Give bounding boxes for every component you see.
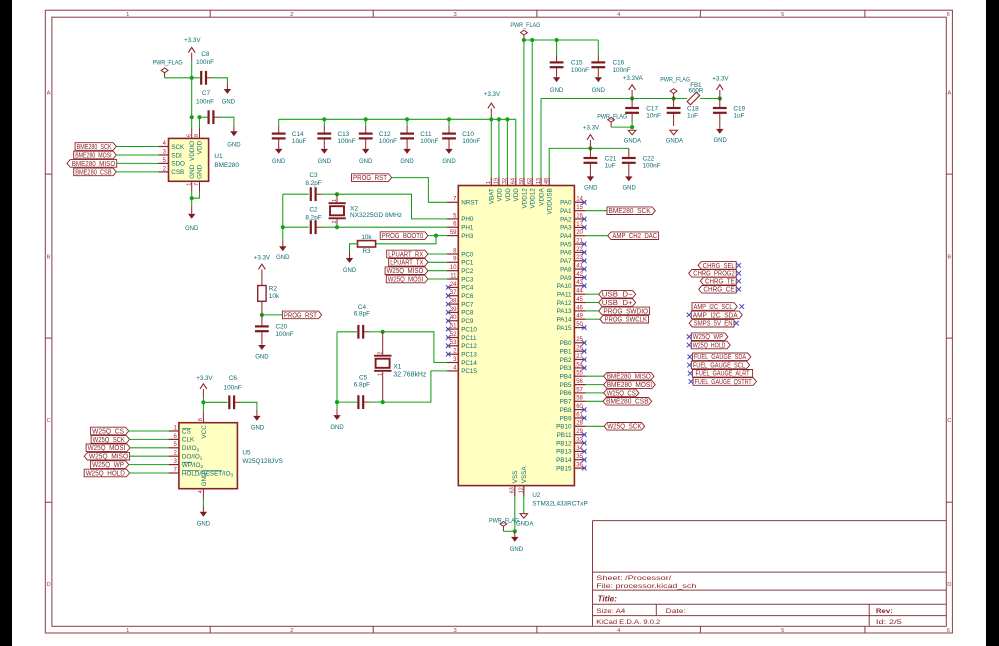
svg-text:53: 53	[450, 340, 457, 346]
svg-text:GND: GND	[197, 522, 211, 528]
svg-text:100nF: 100nF	[276, 331, 294, 338]
svg-text:PB7: PB7	[560, 399, 572, 406]
svg-text:36: 36	[576, 463, 583, 469]
crystal X2	[329, 192, 403, 229]
svg-text:PA12: PA12	[557, 300, 572, 307]
hier label W25Q_WP (nc)	[687, 332, 728, 341]
svg-text:PC1: PC1	[461, 260, 474, 267]
svg-text:1: 1	[126, 12, 129, 18]
svg-text:600R: 600R	[689, 87, 704, 94]
svg-text:3: 3	[453, 12, 456, 18]
svg-text:5: 5	[781, 628, 784, 634]
ground GND (C13)	[318, 149, 332, 165]
hier label FUEL_GAUGE_SDA	[688, 352, 751, 361]
svg-text:SDO: SDO	[171, 161, 185, 168]
svg-text:DO/IO1: DO/IO1	[182, 454, 203, 461]
svg-text:PB11: PB11	[557, 432, 572, 439]
svg-text:17: 17	[576, 222, 583, 228]
hier label W25Q_CS (PB6)	[586, 388, 639, 397]
svg-text:SDI: SDI	[171, 152, 182, 159]
svg-text:C20: C20	[276, 324, 288, 331]
svg-text:Size: A4: Size: A4	[596, 608, 625, 615]
power +3.3V (VDD rail)	[484, 91, 501, 119]
ground GND (C7)	[227, 131, 241, 148]
ground GND (C12)	[359, 149, 373, 165]
capacitor C18	[667, 99, 699, 127]
svg-text:26: 26	[576, 346, 583, 352]
svg-text:C21: C21	[605, 155, 617, 162]
capacitor C14	[272, 119, 307, 149]
svg-text:SMPS_5V_EN: SMPS_5V_EN	[694, 319, 733, 328]
svg-text:1: 1	[378, 373, 384, 376]
svg-text:GND: GND	[222, 99, 236, 105]
svg-text:54: 54	[576, 362, 583, 368]
hier label BME280_MISO (PB4)	[586, 372, 654, 381]
svg-text:SCK: SCK	[171, 144, 185, 151]
svg-text:C17: C17	[646, 105, 658, 112]
svg-text:100nF: 100nF	[338, 138, 356, 145]
svg-text:PA9: PA9	[560, 275, 572, 282]
svg-text:8: 8	[198, 418, 204, 421]
svg-text:PB3: PB3	[560, 365, 572, 372]
svg-text:R3: R3	[362, 248, 371, 255]
hier label CHRG_PROG2	[689, 269, 741, 278]
svg-text:PC4: PC4	[461, 285, 474, 292]
svg-text:C22: C22	[643, 155, 655, 162]
svg-text:W25Q_MOSI: W25Q_MOSI	[388, 274, 424, 283]
svg-text:PA13: PA13	[557, 308, 572, 315]
svg-text:57: 57	[576, 387, 583, 393]
svg-text:100nF: 100nF	[196, 98, 214, 105]
svg-text:A: A	[47, 91, 51, 97]
svg-text:2: 2	[332, 221, 338, 224]
svg-text:61: 61	[576, 412, 583, 418]
svg-text:5: 5	[781, 12, 784, 18]
svg-text:100nF: 100nF	[643, 163, 661, 170]
svg-text:100nF: 100nF	[571, 67, 589, 74]
title block	[593, 521, 947, 627]
U5 pin VCC	[198, 402, 208, 438]
capacitor C19	[713, 99, 746, 129]
ground GND (C16)	[592, 77, 606, 94]
capacitor C12	[359, 119, 397, 149]
svg-text:+3.3V: +3.3V	[484, 91, 501, 98]
svg-text:100nF: 100nF	[420, 138, 438, 145]
svg-text:C2: C2	[309, 206, 318, 213]
svg-text:37: 37	[450, 290, 457, 296]
svg-text:PROG_BOOT0: PROG_BOOT0	[382, 231, 424, 240]
hier label USB_D+ (PA12)	[586, 298, 636, 307]
svg-text:GND: GND	[592, 88, 606, 94]
svg-text:PB5: PB5	[560, 382, 572, 389]
svg-text:KiCad E.D.A. 9.0.2: KiCad E.D.A. 9.0.2	[596, 619, 660, 626]
capacitor C21	[584, 148, 617, 176]
svg-text:PA15: PA15	[557, 325, 572, 332]
svg-text:52: 52	[450, 332, 457, 338]
hier label BME280_MOSI (PB5)	[586, 380, 655, 389]
svg-text:33: 33	[576, 437, 583, 443]
svg-text:PC11: PC11	[461, 335, 477, 342]
wire PROG_BOOT0 to PH3	[428, 234, 447, 238]
svg-text:41: 41	[576, 264, 583, 270]
svg-text:C6: C6	[229, 375, 238, 382]
svg-text:10k: 10k	[361, 234, 372, 241]
hier label W25Q_MOSI (U5)	[86, 443, 169, 452]
svg-text:C: C	[947, 418, 951, 424]
hier label BME280_MOSI (U1)	[74, 150, 159, 159]
svg-text:8: 8	[194, 134, 200, 137]
wire VDD12 rail	[522, 38, 598, 177]
svg-text:PB2: PB2	[560, 357, 572, 364]
svg-text:PC7: PC7	[461, 301, 474, 308]
svg-text:C11: C11	[420, 131, 432, 138]
hier label FUEL_GAUGE_ALRT	[688, 369, 753, 378]
svg-text:6: 6	[947, 12, 950, 18]
svg-text:GND: GND	[227, 142, 241, 148]
svg-text:GND: GND	[359, 159, 373, 165]
svg-text:PH0: PH0	[461, 216, 474, 223]
svg-text:PROG_RST: PROG_RST	[284, 310, 318, 319]
svg-text:PH1: PH1	[461, 225, 474, 232]
svg-text:46: 46	[576, 305, 583, 311]
svg-text:PC6: PC6	[461, 293, 474, 300]
svg-text:PC10: PC10	[461, 326, 477, 333]
capacitor C10	[442, 119, 480, 149]
svg-text:GND: GND	[442, 159, 456, 165]
svg-text:55: 55	[576, 371, 583, 377]
svg-text:PA2: PA2	[560, 216, 572, 223]
svg-text:PC12: PC12	[461, 343, 477, 350]
power +3.3V (U5)	[196, 375, 213, 402]
wire PROG_RST to NRST	[392, 178, 447, 203]
ground GND (U1)	[185, 207, 199, 232]
frame column numbers	[126, 12, 950, 634]
svg-text:20: 20	[576, 230, 583, 236]
svg-text:BME280_SCK: BME280_SCK	[609, 206, 651, 215]
svg-text:VBAT: VBAT	[489, 188, 496, 204]
svg-text:File: processor.kicad_sch: File: processor.kicad_sch	[596, 583, 696, 590]
svg-text:GND: GND	[623, 186, 637, 192]
capacitor C8	[192, 51, 228, 89]
svg-text:GND: GND	[272, 159, 286, 165]
power flag PWR_FLAG (analog)	[597, 113, 627, 127]
svg-text:PA10: PA10	[557, 283, 572, 290]
ground GND (X2 rail)	[276, 246, 290, 261]
svg-text:1: 1	[332, 199, 338, 202]
capacitor C22	[622, 148, 661, 176]
ground GND (C10)	[442, 149, 456, 165]
ground GNDA (VSSA)	[516, 514, 533, 528]
svg-text:64: 64	[511, 178, 517, 184]
hier label BME280_SCK (PA1)	[586, 206, 656, 215]
svg-text:PA4: PA4	[560, 233, 572, 240]
svg-text:45: 45	[576, 297, 583, 303]
hier label LPUART_TX	[389, 258, 447, 267]
U2 right pins	[556, 197, 586, 473]
hier label PROG_BOOT0	[380, 231, 428, 240]
hier label AMP_I2C_SDA	[687, 310, 743, 319]
U1 pins bottom GND GND	[186, 164, 203, 191]
svg-text:2: 2	[378, 352, 384, 355]
svg-text:GND: GND	[255, 355, 269, 361]
hier label W25Q_CS (U5)	[91, 426, 169, 435]
svg-text:50: 50	[519, 178, 525, 184]
svg-text:VDDIO: VDDIO	[189, 141, 196, 161]
svg-text:10uF: 10uF	[292, 138, 307, 145]
IC U2 STM32L433RCTxP body	[458, 186, 587, 508]
svg-text:1: 1	[126, 628, 129, 634]
svg-text:GND: GND	[714, 138, 728, 144]
svg-text:U1: U1	[214, 153, 223, 160]
svg-text:44: 44	[576, 289, 583, 295]
svg-text:+3.3V: +3.3V	[196, 375, 213, 382]
svg-text:PC13: PC13	[461, 352, 477, 359]
svg-text:PA0: PA0	[560, 200, 572, 207]
U2 top pins VBAT VDD VDD12 VDDA VDDUSB	[486, 177, 553, 214]
svg-text:49: 49	[576, 314, 583, 320]
svg-text:WP/IO2: WP/IO2	[182, 462, 204, 469]
svg-text:CLK: CLK	[182, 437, 195, 444]
hier label AMP_I2C_SCL	[692, 302, 744, 311]
svg-text:22: 22	[576, 247, 583, 253]
svg-text:48: 48	[544, 178, 550, 184]
svg-text:7: 7	[194, 183, 200, 186]
svg-text:PB1: PB1	[560, 349, 572, 356]
hier label PROG_RST (R2 node)	[260, 310, 322, 319]
ground GND (C14)	[272, 149, 286, 165]
hier label W25Q_MOSI (U2)	[386, 274, 447, 283]
svg-text:VDD12: VDD12	[521, 188, 528, 209]
svg-text:100nF: 100nF	[196, 59, 214, 66]
ground GND (U5)	[197, 512, 211, 528]
svg-text:12: 12	[519, 487, 525, 493]
svg-text:14: 14	[576, 197, 583, 203]
power flag PWR_FLAG (C18)	[660, 76, 690, 98]
hier label BME280_MISO (U1)	[67, 159, 158, 168]
svg-text:CSB: CSB	[171, 169, 184, 176]
ground GNDA (C18)	[666, 130, 683, 144]
hier label W25Q_MISO (U5)	[84, 452, 168, 461]
svg-text:1uF: 1uF	[733, 113, 744, 120]
svg-text:PB0: PB0	[560, 340, 572, 347]
IC U5 W25Q128JVS body	[179, 423, 283, 489]
svg-text:CHRG_CE: CHRG_CE	[703, 285, 734, 294]
wire U1 GND pins join	[190, 192, 200, 207]
svg-text:NX3225GD 8MHz: NX3225GD 8MHz	[350, 212, 402, 219]
svg-text:GND: GND	[197, 164, 204, 178]
wire VDD pins to rail	[491, 119, 516, 177]
svg-text:C18: C18	[687, 105, 699, 112]
hier label FUEL_GAUGE_SCL	[687, 360, 750, 369]
svg-text:PH3: PH3	[461, 233, 474, 240]
hier label W25Q_SCK (U5)	[91, 435, 169, 444]
svg-text:PA1: PA1	[560, 208, 572, 215]
svg-text:13: 13	[536, 178, 542, 184]
svg-text:Date:: Date:	[666, 608, 686, 615]
svg-text:+3.3V: +3.3V	[712, 76, 729, 83]
hier label W25Q_HOLD (nc)	[687, 340, 730, 349]
wire VDDA to +3.3VA rail	[541, 96, 687, 177]
svg-text:BME280_CSB: BME280_CSB	[75, 167, 112, 176]
capacitor C17	[625, 99, 661, 128]
svg-text:B: B	[47, 254, 51, 260]
U2 bottom pins VSS VSSA	[510, 466, 529, 497]
capacitor C15	[550, 40, 589, 77]
wire PWR_FLAG to C17 node	[611, 125, 634, 129]
svg-text:VCC: VCC	[201, 425, 208, 439]
resistor R3	[350, 234, 437, 258]
ground GND (C19)	[714, 129, 728, 144]
svg-text:PB10: PB10	[556, 424, 572, 431]
svg-text:PB12: PB12	[556, 440, 572, 447]
svg-text:GND: GND	[400, 159, 414, 165]
svg-text:PC8: PC8	[461, 310, 474, 317]
svg-text:W25Q_HOLD: W25Q_HOLD	[693, 340, 726, 349]
svg-text:GND: GND	[189, 164, 196, 178]
power flag PWR_FLAG (GND)	[489, 517, 519, 531]
svg-text:51: 51	[450, 324, 457, 330]
ground GND (U2)	[510, 531, 524, 553]
svg-text:C3: C3	[309, 172, 318, 179]
svg-text:50: 50	[576, 322, 583, 328]
svg-text:C8: C8	[201, 51, 210, 58]
svg-text:100nF: 100nF	[462, 138, 480, 145]
svg-text:Id: 2/5: Id: 2/5	[876, 619, 902, 626]
svg-text:6: 6	[186, 134, 192, 137]
svg-text:Title:: Title:	[598, 595, 618, 604]
ground GND (C22)	[623, 176, 637, 191]
svg-text:59: 59	[450, 230, 457, 236]
svg-text:16: 16	[576, 213, 583, 219]
svg-text:GNDA: GNDA	[624, 139, 641, 145]
svg-text:PC0: PC0	[461, 251, 474, 258]
svg-text:PC3: PC3	[461, 276, 474, 283]
svg-text:32: 32	[502, 178, 508, 184]
svg-text:VSS: VSS	[512, 471, 519, 484]
svg-text:W25Q128JVS: W25Q128JVS	[242, 458, 283, 465]
svg-text:1: 1	[486, 181, 492, 184]
svg-text:100nF: 100nF	[224, 384, 242, 391]
svg-text:35: 35	[576, 454, 583, 460]
svg-text:AMP_CH2_DAC: AMP_CH2_DAC	[612, 231, 657, 240]
hier label W25Q_SCK (PB10)	[586, 422, 645, 431]
capacitor C5	[337, 374, 385, 409]
svg-text:58: 58	[576, 396, 583, 402]
svg-text:PWR_FLAG: PWR_FLAG	[597, 113, 627, 120]
power +3.3V (C21)	[583, 125, 600, 149]
svg-text:8.2pF: 8.2pF	[305, 180, 321, 187]
svg-text:U2: U2	[532, 492, 541, 499]
svg-text:STM32L433RCTxP: STM32L433RCTxP	[532, 500, 587, 507]
svg-text:D: D	[947, 582, 951, 588]
svg-text:27: 27	[576, 354, 583, 360]
U5 pin GND	[198, 472, 208, 512]
svg-text:PC2: PC2	[461, 268, 474, 275]
svg-text:PB15: PB15	[556, 465, 572, 472]
svg-text:19: 19	[494, 178, 500, 184]
svg-text:GND: GND	[276, 255, 290, 261]
wire X1 left rail	[335, 332, 339, 415]
wire +3.3V rail to VDD pins	[279, 117, 516, 121]
power +3.3VA	[623, 75, 644, 99]
svg-text:PB6: PB6	[560, 390, 572, 397]
svg-text:8.2pF: 8.2pF	[305, 214, 321, 221]
svg-text:VDDUSB: VDDUSB	[547, 188, 554, 214]
capacitor C11	[400, 119, 438, 149]
svg-text:3: 3	[453, 628, 456, 634]
svg-text:10nF: 10nF	[646, 113, 661, 120]
svg-text:C10: C10	[462, 131, 474, 138]
svg-text:24: 24	[450, 282, 457, 288]
svg-text:C19: C19	[733, 105, 745, 112]
svg-text:38: 38	[450, 299, 457, 305]
hier label AMP_CH2_DAC (PA4)	[586, 231, 659, 240]
hier label LPUART_RX	[387, 249, 447, 258]
svg-text:VDD: VDD	[513, 188, 520, 202]
IC U1 BME280 body	[169, 138, 240, 181]
svg-text:C: C	[47, 418, 51, 424]
svg-text:Rev:: Rev:	[876, 608, 893, 615]
svg-text:10k: 10k	[269, 293, 280, 300]
ground GND (C20)	[255, 345, 269, 361]
svg-text:VDD: VDD	[197, 140, 204, 154]
svg-text:1uF: 1uF	[687, 113, 698, 120]
svg-text:42: 42	[576, 272, 583, 278]
svg-text:PB14: PB14	[556, 457, 572, 464]
ground GNDA (C17)	[624, 130, 641, 144]
resistor R2	[258, 278, 280, 315]
wire VSSA to GNDA	[523, 497, 525, 514]
svg-text:6.8pF: 6.8pF	[354, 311, 370, 318]
svg-text:43: 43	[576, 280, 583, 286]
svg-text:GND: GND	[318, 159, 332, 165]
svg-text:63: 63	[510, 487, 516, 493]
capacitor C4	[337, 304, 383, 339]
crystal X1	[374, 332, 427, 402]
svg-text:6: 6	[947, 628, 950, 634]
svg-text:21: 21	[576, 239, 583, 245]
wire X1 bottom to PC15	[383, 371, 447, 402]
ground GND (C6)	[251, 416, 265, 432]
svg-text:34: 34	[576, 446, 583, 452]
hier label CHRG_TE	[700, 277, 741, 286]
capacitor C3	[283, 172, 337, 201]
svg-text:GNDA: GNDA	[666, 139, 683, 145]
svg-text:BME280_CSB: BME280_CSB	[606, 397, 649, 406]
wire X1 top to PC14	[381, 330, 447, 363]
hier label W25Q_HOLD (U5)	[84, 468, 168, 477]
capacitor C2	[283, 206, 447, 234]
ferrite bead FB1	[687, 82, 722, 105]
svg-text:VSSA: VSSA	[521, 466, 528, 484]
svg-text:B: B	[947, 254, 951, 260]
ground GND (C15)	[550, 77, 564, 94]
svg-text:6.8pF: 6.8pF	[354, 382, 370, 389]
svg-text:PC15: PC15	[461, 368, 477, 375]
svg-text:PC14: PC14	[461, 360, 477, 367]
U2 left pins	[446, 197, 479, 376]
svg-text:PWR_FLAG: PWR_FLAG	[660, 76, 690, 83]
svg-text:25: 25	[576, 337, 583, 343]
svg-text:PB13: PB13	[556, 449, 572, 456]
hier label FUEL_GAUGE_QSTRT	[689, 377, 757, 386]
svg-text:A: A	[947, 91, 951, 97]
capacitor C13	[317, 119, 355, 149]
svg-text:32.768kHz: 32.768kHz	[393, 371, 426, 378]
svg-text:R2: R2	[269, 286, 278, 293]
hier label SMPS_5V_EN	[689, 319, 739, 328]
svg-text:C13: C13	[338, 131, 350, 138]
